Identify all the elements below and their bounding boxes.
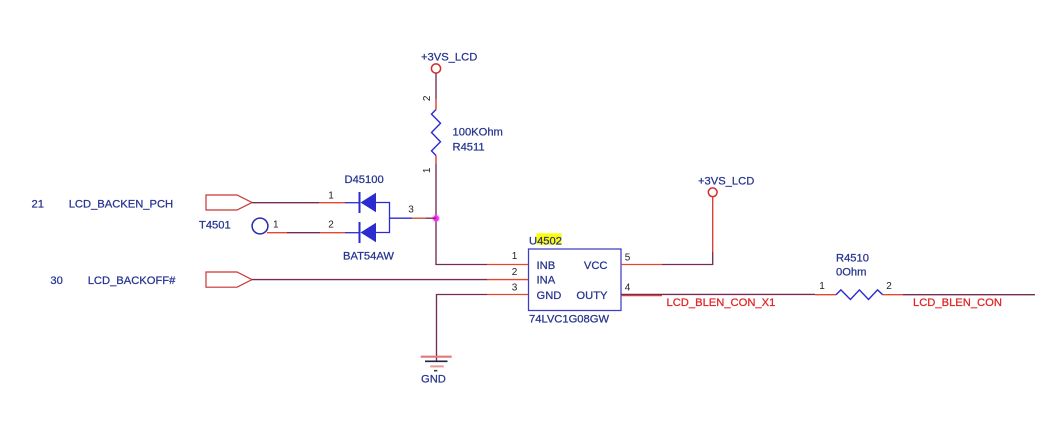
power symbol +3VS_LCD (right) [698, 175, 754, 196]
pin 1 stub [487, 264, 528, 266]
pin 2 stub [487, 279, 528, 281]
svg-text:5: 5 [625, 253, 631, 264]
svg-text:1: 1 [328, 191, 334, 202]
svg-text:LCD_BLEN_CON_X1: LCD_BLEN_CON_X1 [667, 297, 776, 309]
wire +3VS_LCD to U4502 pin 5 VCC [662, 197, 713, 265]
port 30 LCD_BACKOFF# [50, 272, 252, 287]
svg-text:+3VS_LCD: +3VS_LCD [698, 175, 754, 187]
svg-text:4: 4 [625, 283, 631, 294]
svg-text:2: 2 [512, 267, 518, 278]
port 21 LCD_BACKEN_PCH [32, 195, 253, 210]
power symbol +3VS_LCD (left) [421, 51, 477, 73]
svg-text:1: 1 [422, 167, 433, 173]
svg-text:GND: GND [537, 290, 562, 302]
svg-text:LCD_BACKEN_PCH: LCD_BACKEN_PCH [69, 198, 173, 210]
svg-text:1: 1 [512, 251, 518, 262]
svg-text:OUTY: OUTY [576, 290, 608, 302]
pin 4 stub [621, 295, 662, 297]
svg-text:100KOhm: 100KOhm [453, 127, 503, 139]
svg-text:INA: INA [537, 275, 556, 287]
svg-text:1: 1 [273, 220, 279, 231]
wire T4501 to diode pin 2 [287, 232, 345, 234]
svg-text:2: 2 [886, 281, 892, 292]
IC U4502 74LVC1G08GW [487, 233, 662, 325]
wire U4502 pin 3 to ground [437, 295, 488, 361]
wire port21 to diode pin 1 [252, 202, 345, 204]
svg-text:21: 21 [32, 198, 44, 210]
node junction (magenta) [432, 214, 440, 222]
svg-text:D45100: D45100 [345, 174, 384, 186]
svg-text:74LVC1G08GW: 74LVC1G08GW [529, 314, 609, 326]
svg-text:2: 2 [422, 95, 433, 101]
svg-text:30: 30 [50, 275, 62, 287]
wire power to R4511 [435, 74, 437, 110]
wire R4511 to junction to U4502 pin 1 [436, 164, 487, 265]
svg-text:2: 2 [328, 220, 334, 231]
testpoint T4501 [199, 218, 287, 234]
resistor R4510 [819, 252, 892, 299]
diode D45100 (BAT54AW dual) [328, 174, 414, 262]
svg-text:VCC: VCC [584, 260, 608, 272]
svg-text:T4501: T4501 [199, 219, 231, 231]
pin 3 stub [487, 294, 528, 296]
pin 5 stub [621, 264, 662, 266]
svg-text:LCD_BACKOFF#: LCD_BACKOFF# [88, 275, 176, 287]
svg-text:R4511: R4511 [453, 141, 485, 153]
svg-text:BAT54AW: BAT54AW [343, 250, 394, 262]
svg-text:0Ohm: 0Ohm [836, 267, 866, 279]
svg-text:GND: GND [421, 374, 446, 386]
wire diode pin 3 to junction [390, 217, 437, 219]
svg-text:U4502: U4502 [529, 235, 562, 247]
resistor R4511 [422, 95, 503, 173]
svg-text:R4510: R4510 [836, 252, 869, 264]
ground GND [421, 357, 452, 386]
svg-text:3: 3 [408, 204, 414, 215]
svg-text:3: 3 [512, 283, 518, 294]
svg-text:LCD_BLEN_CON: LCD_BLEN_CON [913, 297, 1002, 309]
svg-text:1: 1 [819, 281, 825, 292]
wire port30 to U4502 pin 2 [252, 279, 487, 281]
svg-text:INB: INB [537, 260, 556, 272]
svg-text:+3VS_LCD: +3VS_LCD [421, 51, 477, 63]
wire R4510 to net LCD_BLEN_CON [883, 295, 1035, 309]
wire U4502 pin 4 to R4510, net LCD_BLEN_CON_X1 [621, 294, 836, 309]
